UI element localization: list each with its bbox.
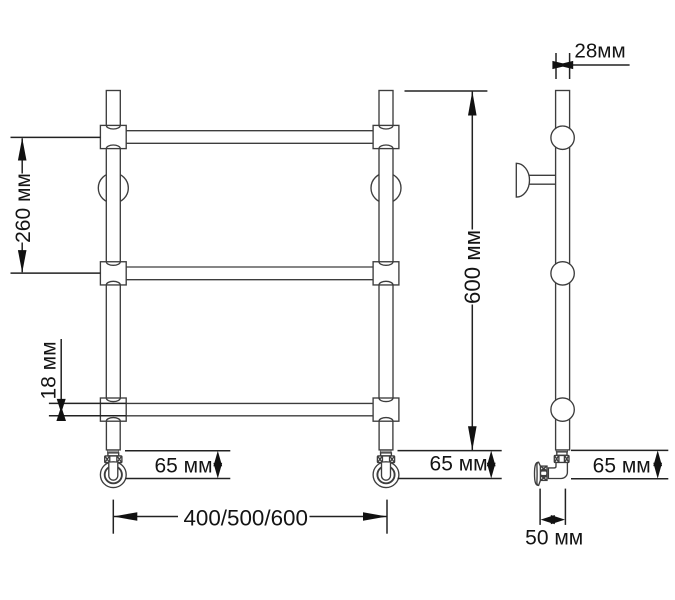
side view bottom fitting: hex nut	[554, 455, 569, 462]
junction block left-top	[100, 125, 126, 148]
left bottom tube below lower junction	[106, 420, 120, 450]
svg-text:50 мм: 50 мм	[525, 527, 583, 550]
dimension 600 mm	[405, 91, 488, 450]
wall-mount boss right (front view)	[371, 173, 401, 203]
svg-text:65 мм: 65 мм	[593, 454, 651, 477]
side view wall plate	[535, 462, 541, 485]
left bottom fitting: hex nut	[105, 456, 122, 463]
svg-text:28мм: 28мм	[574, 40, 625, 63]
wall-mount boss left (front view)	[98, 173, 128, 203]
side view wall nut	[540, 466, 547, 480]
left bottom fitting: elbow flange circles	[100, 462, 126, 488]
side view junction ball middle	[551, 262, 574, 285]
left bottom fitting: collar ring	[108, 450, 119, 456]
side view bottom fitting: collar ring	[556, 450, 567, 455]
right bottom tube below lower junction	[379, 420, 393, 450]
svg-text:65 мм: 65 мм	[430, 452, 488, 475]
right bottom fitting: collar ring	[380, 450, 391, 456]
18mm extension lines crossing lower-left block	[49, 403, 126, 415]
dimension 260 mm	[11, 137, 101, 273]
side view wall bracket	[516, 163, 555, 197]
left post (front view)	[106, 91, 120, 420]
dimension 28 mm	[552, 40, 629, 80]
dimension 65 mm middle	[398, 451, 502, 479]
side view junction ball bottom	[551, 398, 574, 421]
junction block right-top	[373, 125, 399, 148]
dimension 50 mm	[525, 489, 583, 550]
dimension 400/500/600	[113, 500, 387, 534]
side view elbow pipe	[548, 463, 567, 479]
bottom horizontal bar (front view)	[126, 403, 373, 415]
junction block right-bottom	[373, 398, 399, 421]
dimension 18 mm	[37, 339, 66, 421]
svg-text:600 мм: 600 мм	[460, 230, 485, 304]
junction block left-bottom	[100, 398, 126, 421]
svg-text:260 мм: 260 мм	[12, 173, 35, 243]
middle horizontal bar (front view)	[126, 267, 373, 280]
svg-text:65 мм: 65 мм	[154, 455, 212, 478]
right bottom fitting: elbow flange circles	[373, 462, 399, 488]
right post (front view)	[379, 91, 393, 420]
dimension 65 mm right	[571, 450, 668, 478]
top horizontal bar (front view)	[126, 131, 373, 144]
dimension 65 mm left	[125, 451, 230, 479]
svg-text:18 мм: 18 мм	[37, 341, 60, 399]
side view post	[556, 91, 570, 450]
side view junction ball top	[551, 126, 574, 149]
junction block left-middle	[100, 262, 126, 285]
svg-text:400/500/600: 400/500/600	[183, 506, 308, 531]
junction block right-middle	[373, 262, 399, 285]
right bottom fitting: hex nut	[377, 456, 394, 463]
